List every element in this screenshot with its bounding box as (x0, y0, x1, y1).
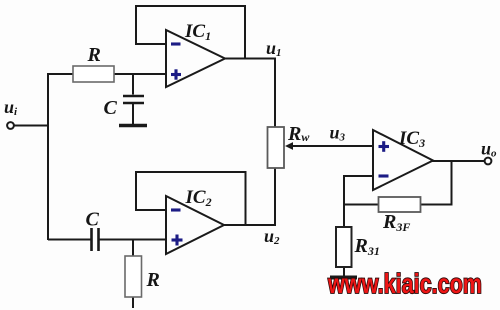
svg-text:C: C (86, 209, 100, 231)
svg-text:R: R (146, 269, 160, 291)
svg-text:www.kiaic.com: www.kiaic.com (327, 268, 482, 299)
svg-text:R: R (87, 44, 101, 66)
svg-text:C: C (104, 97, 118, 119)
